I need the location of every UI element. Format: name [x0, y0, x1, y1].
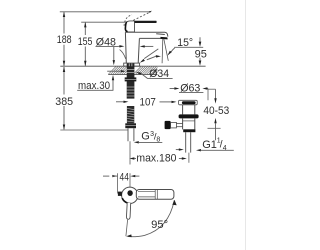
svg-text:40-53: 40-53: [203, 105, 229, 117]
drain flange: [179, 114, 199, 118]
hose end nut: [125, 123, 136, 128]
dimension 40-53: [215, 89, 217, 99]
dimension 107: [116, 101, 125, 103]
extension line 155 (lever top level): [81, 21, 125, 23]
extension line 385 bottom (hose end level): [60, 129, 127, 131]
jog to 40-53 dim: [208, 88, 216, 90]
Ø48 leader left drop with down arrow: [113, 47, 115, 61]
Ø63 arrows: [170, 88, 175, 90]
counter hatch left: [108, 67, 126, 75]
stem axis extension line: [126, 220, 128, 236]
base plinth: [124, 63, 140, 66]
tailpipe coupling nut: [183, 129, 195, 132]
handle lever down position: [126, 203, 130, 220]
small leader curve at body left: [120, 50, 126, 59]
svg-text:107: 107: [140, 97, 157, 109]
side stub rod: [176, 122, 182, 124]
Ø48 arrow pointing left at body right edge: [145, 45, 154, 47]
mounting nut: [125, 77, 137, 81]
pop-up drain cap: [179, 100, 198, 105]
raised knob dashed arc: [124, 15, 132, 26]
svg-text:4: 4: [223, 145, 227, 152]
svg-text:155: 155: [78, 36, 93, 48]
side stub dark cap: [165, 121, 171, 129]
counter bottom line: [108, 73, 157, 75]
extension line top (raised lever level): [60, 11, 151, 13]
side stub nut: [171, 122, 177, 128]
Ø48 arrow pointing right at body left edge: [119, 45, 121, 47]
lever bar: [135, 21, 157, 23]
rod stub left of circle: [118, 192, 122, 196]
threaded stud below counter: [127, 63, 135, 98]
aerator: [160, 37, 167, 40]
svg-text:95°: 95°: [151, 219, 168, 231]
svg-text:95: 95: [195, 48, 207, 60]
15 deg arc right arm with arrow: [171, 48, 175, 52]
dimension 44: [103, 175, 109, 177]
arc arrow bottom: [126, 234, 132, 237]
G1 1/4 threaded pipe: [185, 132, 187, 152]
dimension line 155: [84, 23, 86, 66]
dimension line 385: [63, 67, 65, 129]
raised lever dashed: [133, 12, 150, 21]
svg-text:G: G: [141, 130, 150, 142]
15 deg arc left arm with arrow: [147, 56, 156, 60]
dimension line 188: [63, 12, 65, 66]
panel divider: [245, 0, 247, 250]
svg-text:385: 385: [55, 96, 73, 108]
raised lever tip arrow: [149, 11, 152, 13]
lever knob: [125, 21, 134, 32]
Ø48 leader right curve with down arrow: [144, 49, 158, 59]
counter hatch right: [135, 67, 158, 75]
drain body upper: [182, 105, 184, 115]
pivot dot: [127, 190, 132, 196]
svg-text:44: 44: [120, 171, 130, 183]
drain body lower: [182, 118, 184, 129]
faucet body and spout outline: [125, 32, 167, 63]
handle detail: pivot circle: [122, 187, 138, 203]
svg-text:max.180: max.180: [136, 152, 176, 164]
svg-text:188: 188: [57, 34, 72, 46]
G3/8 pipe end: [127, 128, 129, 141]
handle lever horizontal: [136, 190, 174, 200]
counter top line: [60, 65, 205, 67]
centerline below faucet: [129, 141, 131, 164]
drain centerline: [188, 153, 190, 163]
ext tick at flange bottom level: [208, 127, 221, 129]
arc arrow top: [172, 200, 176, 205]
swing arc 95 deg: [128, 200, 175, 237]
dimension 95 vertical: [199, 37, 201, 42]
G1 1/4 dimension arrows: [176, 149, 180, 151]
dimension max.180: [129, 157, 134, 159]
flexible hose column: [127, 106, 134, 123]
Ø34 left arrow: [107, 70, 120, 72]
Ø63 ext drop to cap top: [207, 89, 209, 101]
svg-text:G1: G1: [202, 139, 217, 151]
water stream lines: [161, 39, 164, 63]
